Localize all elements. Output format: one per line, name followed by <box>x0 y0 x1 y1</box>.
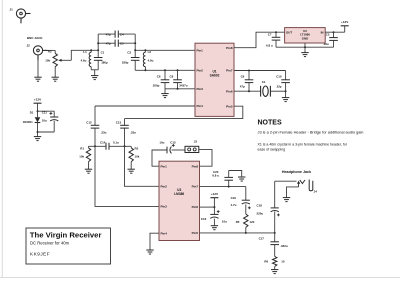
svg-text:C12: C12 <box>86 120 92 124</box>
resistor R2 10k <box>129 146 133 169</box>
svg-text:R6: R6 <box>264 259 268 263</box>
regulator U2 LT1086 <box>285 28 326 43</box>
capacitor C1 180p <box>94 50 103 70</box>
ground at J2 <box>34 77 41 81</box>
svg-text:R3: R3 <box>48 50 52 54</box>
ground at supply <box>34 137 41 141</box>
node C10 column <box>285 90 287 92</box>
wire U3 Pin4 to ground <box>150 233 159 250</box>
svg-text:C10: C10 <box>276 75 282 79</box>
svg-text:J1: J1 <box>10 8 14 12</box>
svg-text:200p: 200p <box>153 84 160 88</box>
svg-text:10k: 10k <box>79 154 84 158</box>
pin labels U1 left <box>197 48 204 108</box>
svg-text:C17: C17 <box>259 237 265 241</box>
wire U1 Pin5 wrap to C13 <box>125 106 243 118</box>
svg-text:C8: C8 <box>170 74 174 78</box>
wire U1 Pin6 <box>234 90 260 92</box>
wire J2 to R3 <box>48 49 56 51</box>
power +12V main <box>34 98 43 112</box>
resistor R5 120 <box>244 214 248 233</box>
ground stem supply <box>37 132 39 137</box>
svg-text:10k: 10k <box>45 58 50 62</box>
svg-text:47p: 47p <box>240 85 245 89</box>
node C20 bottom <box>228 186 230 188</box>
node L2 top <box>144 49 146 51</box>
wire cap bridge left rail <box>97 34 99 50</box>
capacitor C16 10u <box>210 207 218 226</box>
wire regulator bottom rail <box>276 46 334 48</box>
svg-text:.33u: .33u <box>101 130 107 134</box>
svg-text:10u: 10u <box>222 219 227 223</box>
capacitor C20 6.8u <box>224 171 233 187</box>
svg-text:Pin1: Pin1 <box>197 48 204 52</box>
svg-text:C19: C19 <box>231 196 237 200</box>
wire C4 branch left <box>98 33 115 35</box>
wire J3 to U3 Pin8 <box>199 149 212 166</box>
node C9 bottom <box>248 90 250 92</box>
ground at tank1 <box>91 76 98 80</box>
node C6 top <box>164 69 166 71</box>
svg-text:47p: 47p <box>106 41 111 45</box>
svg-text:LM386: LM386 <box>174 192 184 196</box>
capacitor C5 47p <box>115 40 118 47</box>
svg-text:J3: J3 <box>194 140 198 144</box>
wire U3 Pin5 output <box>200 232 275 234</box>
connector J2 BNC jack <box>33 46 47 60</box>
ground at R6 <box>271 270 278 274</box>
node L1 top <box>90 49 92 51</box>
svg-text:10: 10 <box>281 259 285 263</box>
ground at jack <box>283 198 290 202</box>
svg-text:.33u: .33u <box>130 130 136 134</box>
svg-text:Pin1: Pin1 <box>161 164 168 168</box>
capacitor C3 180p <box>131 50 140 70</box>
svg-text:6.8 u: 6.8 u <box>266 43 273 47</box>
svg-text:J2: J2 <box>27 43 31 47</box>
wire node row left <box>89 145 107 147</box>
node C13 bottom <box>124 145 126 147</box>
svg-text:Headphone Jack: Headphone Jack <box>282 170 312 174</box>
svg-text:Pin7: Pin7 <box>226 69 233 73</box>
node C7 top <box>275 31 277 33</box>
svg-text:C11: C11 <box>42 110 48 114</box>
op-amp U1 SA602 mixer IC <box>195 43 234 116</box>
svg-text:10k: 10k <box>135 154 140 158</box>
page frame left edge <box>1 0 3 278</box>
inductor L2 4.6u <box>143 50 145 70</box>
wire tank1 bottom <box>91 69 98 71</box>
plus C16 <box>217 210 220 213</box>
svg-text:Pin5: Pin5 <box>226 104 233 108</box>
svg-text:X1: X1 <box>262 80 266 84</box>
header J3 jumper <box>185 146 199 152</box>
title block box <box>26 228 111 264</box>
svg-text:The Virgin Receiver: The Virgin Receiver <box>30 230 102 239</box>
node supply <box>37 110 39 112</box>
power +12V U3 <box>210 192 219 207</box>
ground at C16 <box>211 226 218 230</box>
svg-text:OUT: OUT <box>286 30 292 34</box>
wire supply to C11 <box>38 110 55 112</box>
node C1 top <box>97 49 99 51</box>
svg-text:R2: R2 <box>135 146 139 150</box>
capacitor C17 .022u <box>270 233 279 257</box>
svg-text:Pin7: Pin7 <box>192 185 199 189</box>
ground at C6 <box>161 94 168 98</box>
ground at U2 <box>301 53 308 57</box>
ground at U3 Pin4 <box>146 250 153 254</box>
svg-text:GND: GND <box>302 37 308 41</box>
wire U3 Pin1 loop <box>152 150 167 166</box>
svg-text:120: 120 <box>250 220 255 224</box>
wire U2 GND stem <box>304 43 306 53</box>
svg-text:+12V: +12V <box>341 20 349 24</box>
wire U1 Pin4 to C12 <box>95 105 195 107</box>
svg-text:+12V: +12V <box>211 192 219 196</box>
capacitor C15 10u <box>167 147 171 154</box>
svg-text:C7: C7 <box>268 33 272 37</box>
svg-text:C14: C14 <box>100 141 106 145</box>
page frame bottom edge <box>0 277 400 279</box>
svg-text:Pin8: Pin8 <box>226 46 233 50</box>
wire U3 Pin7 <box>200 186 246 188</box>
wire tank1 ground stem <box>94 70 96 76</box>
node C3 top <box>134 49 136 51</box>
svg-text:Pin8: Pin8 <box>192 164 199 168</box>
wire C4 branch right <box>118 33 135 35</box>
ground at C20 <box>238 177 245 181</box>
ground at C10 <box>282 98 289 102</box>
node L2 bottom <box>144 69 146 71</box>
svg-text:R1: R1 <box>80 147 84 151</box>
svg-text:C3: C3 <box>127 50 131 54</box>
svg-text:DC Receiver for 40m: DC Receiver for 40m <box>30 241 70 246</box>
wire to U1 Pin1 <box>135 49 195 51</box>
svg-text:4.6u: 4.6u <box>148 58 154 62</box>
capacitor C2 .33u <box>329 32 338 47</box>
jack sleeve line <box>287 187 299 198</box>
node output <box>274 232 276 234</box>
svg-text:Pin3: Pin3 <box>161 205 168 209</box>
svg-text:4.7u: 4.7u <box>231 203 237 207</box>
svg-text:Pin6: Pin6 <box>226 89 233 93</box>
svg-text:Pin2: Pin2 <box>197 68 204 72</box>
wire C15 to J3 <box>172 149 186 151</box>
capacitor C14 0.1u <box>106 143 109 150</box>
node C8 bottom <box>177 88 179 90</box>
plus C11 <box>50 112 53 115</box>
wire C5 branch right <box>118 42 135 44</box>
wire C12 riser <box>94 106 96 125</box>
capacitor C13 .33u <box>120 125 129 146</box>
potentiometer R3 10k <box>53 50 71 77</box>
wire cap bridge right rail <box>134 34 136 50</box>
svg-text:ease of swapping: ease of swapping <box>258 147 286 151</box>
jack tip arrow <box>297 181 300 187</box>
node reg input cap <box>333 31 335 33</box>
ground at R3 <box>52 77 59 81</box>
svg-text:NOTES: NOTES <box>258 120 282 127</box>
svg-text:0.1u: 0.1u <box>113 141 119 145</box>
jack body <box>309 180 313 191</box>
wire C13 riser <box>124 119 126 126</box>
svg-text:180p: 180p <box>122 60 129 64</box>
plus C18 <box>277 214 280 217</box>
capacitor C12 .33u <box>91 125 100 146</box>
svg-text:D1: D1 <box>30 110 34 114</box>
svg-text:SA602: SA602 <box>210 74 220 78</box>
node C9 top <box>248 70 250 72</box>
svg-text:C15: C15 <box>170 140 176 144</box>
capacitor C19 4.7u <box>242 187 250 214</box>
pin labels U3 left <box>161 164 168 235</box>
wire C5 branch left <box>98 42 115 44</box>
plus C15 <box>172 144 175 147</box>
svg-text:C1: C1 <box>101 50 105 54</box>
node R5 bottom <box>245 232 247 234</box>
wire right node to U3 Pin2 <box>125 146 160 186</box>
jack tip V contact <box>300 180 305 184</box>
svg-text:Pin4: Pin4 <box>197 104 204 108</box>
svg-text:6.8 u: 6.8 u <box>212 174 219 178</box>
svg-text:+12V: +12V <box>34 98 42 102</box>
inductor L1 4.6u <box>89 50 91 70</box>
svg-text:X1 is a 40m crystal in a 3-pin: X1 is a 40m crystal in a 3-pin female ma… <box>258 142 348 146</box>
resistor R6 10 <box>273 256 277 269</box>
crystal X1 <box>261 86 271 97</box>
svg-text:Pin4: Pin4 <box>161 231 168 235</box>
capacitor C7 6.8u <box>272 32 281 47</box>
svg-text:180p: 180p <box>101 60 108 64</box>
capacitor C6 200p <box>161 70 170 89</box>
wire U1 Pin7 <box>234 70 286 72</box>
pin labels U1 right <box>226 46 233 109</box>
connector J1 BNC jack <box>16 9 30 23</box>
power +12V input <box>341 20 350 32</box>
svg-text:22p: 22p <box>277 85 282 89</box>
svg-text:Pin3: Pin3 <box>197 87 204 91</box>
svg-text:220u: 220u <box>257 211 264 215</box>
wire U2 IN <box>325 31 345 33</box>
svg-text:L2: L2 <box>148 50 152 54</box>
svg-text:C4: C4 <box>120 32 124 36</box>
svg-text:R5: R5 <box>236 220 240 224</box>
svg-text:KK9JEF: KK9JEF <box>30 252 50 257</box>
wire X1 to C10 <box>270 90 285 92</box>
ground at R2 <box>128 169 135 173</box>
op-amp U3 LM386 audio amp <box>159 161 200 240</box>
node C12 bottom <box>94 145 96 147</box>
capacitor C11 10u <box>50 111 58 132</box>
svg-text:.33u: .33u <box>323 42 329 46</box>
connector J4 headphone jack tip line <box>275 180 297 182</box>
svg-text:Pin6: Pin6 <box>192 205 199 209</box>
diode D1 1N4001 <box>35 111 41 132</box>
node rail junctions <box>97 42 136 44</box>
svg-text:1N4001: 1N4001 <box>23 120 34 124</box>
svg-text:4.6u: 4.6u <box>81 58 87 62</box>
svg-text:C18: C18 <box>257 204 263 208</box>
wire tank2 bottom to U1 Pin2 <box>135 69 195 71</box>
svg-text:IN: IN <box>321 30 324 34</box>
ground stem at C6 <box>164 89 166 94</box>
svg-text:Pin2: Pin2 <box>161 184 168 188</box>
resistor R1 10k <box>86 146 90 169</box>
svg-text:3437u: 3437u <box>179 84 187 88</box>
svg-text:C9: C9 <box>241 75 245 79</box>
svg-text:Pin5: Pin5 <box>192 231 199 235</box>
svg-text:C6: C6 <box>157 74 161 78</box>
wire to U1 Pin3 <box>165 88 195 90</box>
ground at R1 <box>85 169 92 173</box>
pin labels U3 right <box>192 164 199 235</box>
wire supply bottom <box>38 131 55 133</box>
capacitor C8 trimmer <box>173 70 182 89</box>
svg-text:J3 is a 2-pin Female Header -: J3 is a 2-pin Female Header - Bridge for… <box>258 129 364 134</box>
svg-text:10u: 10u <box>42 119 47 123</box>
capacitor C4 47p <box>115 31 118 38</box>
svg-text:BNC JACK: BNC JACK <box>27 36 43 40</box>
wire left node to U3 Pin3 <box>95 146 159 206</box>
svg-text:C16: C16 <box>201 217 207 221</box>
wire node row right <box>109 145 131 147</box>
node C8 top <box>177 69 179 71</box>
node D1 bottom <box>37 131 39 133</box>
svg-text:.022u: .022u <box>280 244 288 248</box>
svg-text:C2: C2 <box>326 33 330 37</box>
wire C20 to ground <box>229 171 242 178</box>
svg-text:C5: C5 <box>120 41 124 45</box>
wire wiper riser to signal line <box>71 50 98 60</box>
capacitor C9 47p <box>245 71 254 92</box>
svg-text:10u: 10u <box>159 140 164 144</box>
svg-text:J4: J4 <box>314 189 318 193</box>
plus C19 <box>248 206 251 209</box>
wire U1 Pin8 to regulator <box>234 32 285 48</box>
svg-text:L1: L1 <box>83 50 87 54</box>
svg-text:C13: C13 <box>116 120 122 124</box>
node GND rail <box>304 46 306 48</box>
wire U3 Pin6 <box>200 206 215 208</box>
svg-text:47p: 47p <box>106 32 111 36</box>
node Pin6 supply <box>213 206 215 208</box>
capacitor C18 220u <box>271 181 279 233</box>
wire J2 stem <box>37 60 39 78</box>
capacitor C10 22p <box>281 71 290 98</box>
